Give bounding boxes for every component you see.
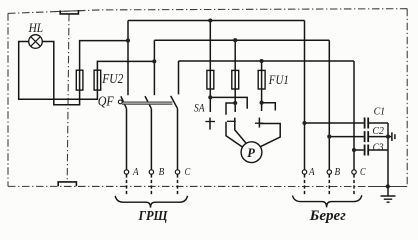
svg-text:Берег: Берег xyxy=(309,208,346,224)
svg-text:SA: SA xyxy=(194,102,205,114)
svg-text:С: С xyxy=(360,167,366,178)
svg-text:QF: QF xyxy=(98,94,115,109)
svg-text:Р: Р xyxy=(247,146,255,160)
svg-text:А: А xyxy=(308,167,315,178)
svg-text:FU2: FU2 xyxy=(101,71,123,86)
svg-text:FU1: FU1 xyxy=(268,72,289,87)
svg-text:C3: C3 xyxy=(373,142,384,153)
svg-text:В: В xyxy=(335,167,341,178)
svg-text:C2: C2 xyxy=(372,126,384,137)
svg-text:ГРЩ: ГРЩ xyxy=(138,208,169,223)
svg-text:C1: C1 xyxy=(374,107,386,118)
svg-text:С: С xyxy=(185,167,191,178)
svg-text:HL: HL xyxy=(28,21,43,35)
svg-text:А: А xyxy=(132,167,139,178)
svg-text:В: В xyxy=(159,167,165,178)
